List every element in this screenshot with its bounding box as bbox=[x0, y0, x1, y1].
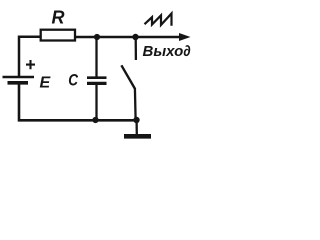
battery E short negative plate bbox=[8, 81, 29, 85]
wire: left branch (battery top lead + top-left horizontal) bbox=[19, 37, 41, 76]
resistor R1 bbox=[41, 30, 75, 41]
wire: resistor to output bbox=[75, 36, 182, 38]
sawtooth waveform icon bbox=[145, 14, 172, 26]
arrowhead (output) bbox=[179, 33, 191, 41]
ground bar bbox=[124, 134, 151, 139]
node: switch bottom junction bbox=[133, 117, 139, 123]
ground lead bbox=[135, 121, 137, 135]
switch S1 blade (open) bbox=[121, 65, 134, 88]
switch S1 lower lead bbox=[134, 88, 137, 119]
plus sign bbox=[26, 60, 35, 69]
capacitor C1 bottom plate bbox=[87, 82, 107, 85]
capacitor C1 top plate bbox=[87, 76, 107, 79]
node: capacitor bottom junction bbox=[92, 117, 98, 123]
svg-text:Выхо∂: Выхо∂ bbox=[143, 43, 191, 60]
node: switch top junction bbox=[132, 34, 138, 40]
svg-text:E: E bbox=[40, 75, 52, 92]
svg-text:R: R bbox=[52, 8, 65, 28]
switch S1 fixed contact stub bbox=[135, 37, 137, 60]
battery E long positive plate bbox=[3, 76, 35, 79]
node: capacitor top junction bbox=[94, 34, 100, 40]
wire: battery bottom lead + bottom rail bbox=[19, 84, 137, 120]
capacitor C1 bottom lead bbox=[95, 85, 97, 120]
capacitor C1 top lead bbox=[95, 37, 97, 77]
svg-text:C: C bbox=[68, 71, 79, 90]
